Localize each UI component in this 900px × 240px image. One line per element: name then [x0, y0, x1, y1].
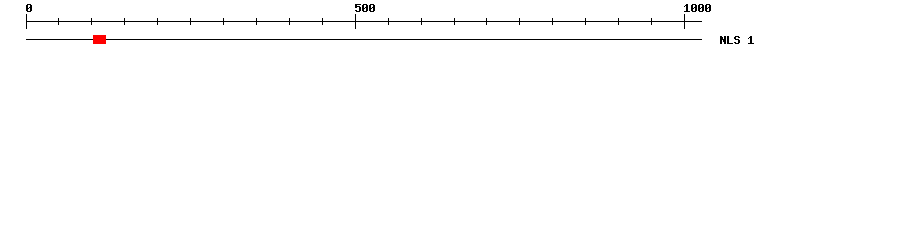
minor tick x=552	[552, 18, 553, 25]
minor tick x=421	[421, 18, 422, 25]
minor tick x=190	[190, 18, 191, 25]
ruler label 500	[355, 4, 375, 12]
minor tick x=256	[256, 18, 257, 25]
major tick 0	[26, 14, 27, 29]
minor tick x=388	[388, 18, 389, 25]
ruler axis line 0-1026	[26, 21, 702, 22]
minor tick x=157	[157, 18, 158, 25]
minor tick x=58	[58, 18, 59, 25]
minor tick x=91	[91, 18, 92, 25]
minor tick x=519	[519, 18, 520, 25]
minor tick x=486	[486, 18, 487, 25]
major tick 500	[355, 14, 356, 29]
ruler label 0	[26, 4, 32, 12]
minor tick x=124	[124, 18, 125, 25]
major tick 1000	[684, 14, 685, 29]
minor tick x=585	[585, 18, 586, 25]
minor tick x=651	[651, 18, 652, 25]
feature label NLS 1	[720, 36, 754, 44]
minor tick x=618	[618, 18, 619, 25]
ruler label 1000	[684, 4, 711, 12]
minor tick x=454	[454, 18, 455, 25]
sequence line	[26, 39, 702, 40]
NLS 1 feature box (red)	[93, 35, 106, 44]
minor tick x=322	[322, 18, 323, 25]
minor tick x=289	[289, 18, 290, 25]
minor tick x=223	[223, 18, 224, 25]
